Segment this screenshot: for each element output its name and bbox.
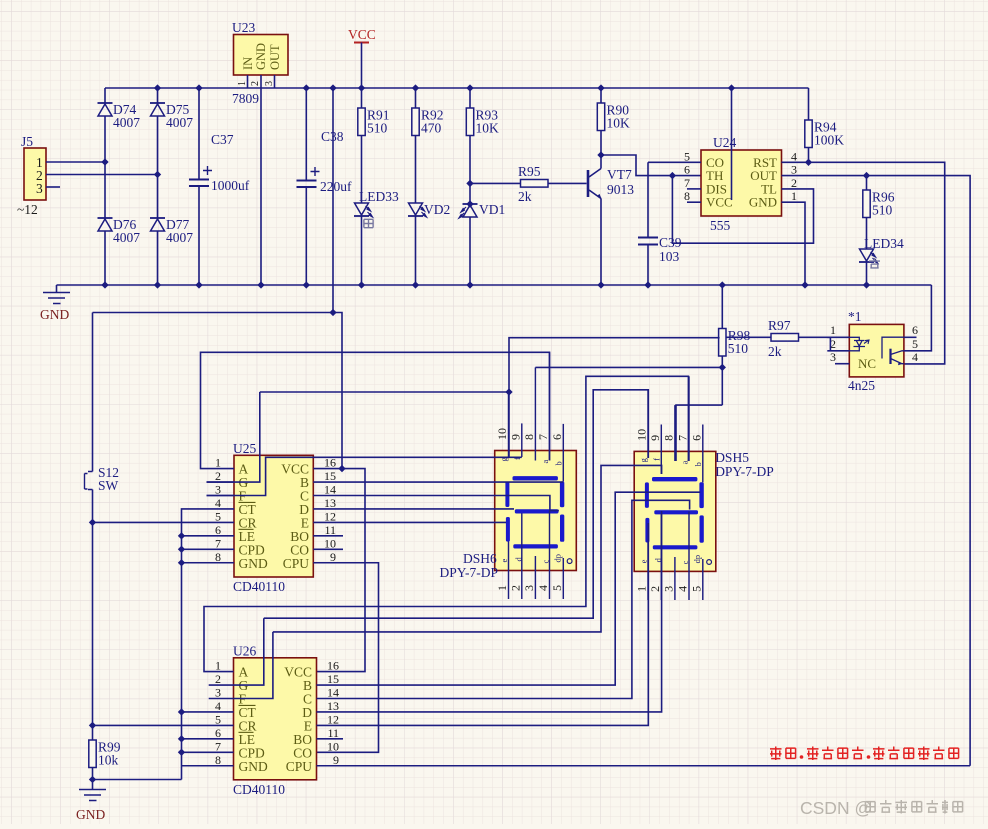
wire: [104, 116, 106, 218]
wire VCC rail to pin8 over box: [731, 88, 733, 200]
wire: [647, 390, 649, 458]
svg-text:470: 470: [421, 121, 442, 136]
wire opto pin5 to ground rail: [904, 285, 932, 351]
wire: [562, 424, 564, 482]
svg-text:8: 8: [684, 189, 690, 203]
transistor VT7: [588, 169, 602, 199]
svg-text:8: 8: [522, 434, 536, 440]
wire: [721, 285, 723, 329]
svg-text:9: 9: [330, 550, 336, 564]
svg-text:U25: U25: [233, 441, 256, 456]
wire: [317, 511, 662, 712]
design credit text (red): [770, 747, 959, 761]
wire: [726, 336, 771, 338]
wire: [361, 88, 363, 108]
wire: [509, 338, 720, 457]
ground symbol top left: [43, 285, 70, 304]
junction: [101, 281, 108, 288]
capacitor C38: [297, 167, 320, 187]
wire: [702, 559, 704, 600]
svg-text:4: 4: [215, 699, 221, 713]
svg-text:R97: R97: [768, 318, 791, 333]
wire: [521, 513, 523, 599]
wire: [182, 765, 234, 767]
wire: [182, 535, 235, 537]
svg-text:C39: C39: [659, 235, 682, 250]
svg-text:7: 7: [684, 176, 690, 190]
svg-text:100K: 100K: [814, 133, 844, 148]
junction: [412, 84, 419, 91]
wire: [562, 558, 564, 599]
svg-text:GND: GND: [749, 195, 777, 210]
junction: [412, 281, 419, 288]
wire: [361, 216, 363, 285]
wire: [182, 509, 235, 780]
svg-text:CPU: CPU: [286, 759, 313, 774]
svg-text:4: 4: [791, 149, 797, 163]
junction: [89, 776, 96, 783]
junction: [358, 84, 365, 91]
svg-text:10K: 10K: [607, 116, 631, 131]
junction: [466, 281, 473, 288]
svg-text:2: 2: [215, 672, 221, 686]
svg-text:6: 6: [689, 435, 703, 441]
diode D75: [150, 103, 165, 116]
junction: [805, 159, 812, 166]
junction: [338, 465, 345, 472]
optocoupler *1 4n25: [849, 324, 904, 377]
junction: [154, 171, 161, 178]
wire: [549, 511, 551, 599]
wire: [157, 88, 159, 103]
wire: [93, 779, 182, 781]
wire: [209, 632, 273, 699]
wire: [687, 188, 701, 190]
svg-text:OUT: OUT: [268, 44, 282, 70]
svg-text:11: 11: [327, 726, 339, 740]
wire RST to opto pin4: [782, 162, 945, 364]
svg-text:5: 5: [684, 149, 690, 163]
svg-text:dp: dp: [692, 555, 702, 564]
svg-text:CPU: CPU: [283, 556, 310, 571]
wire: [313, 481, 563, 483]
junction: [303, 84, 310, 91]
svg-text:13: 13: [324, 496, 336, 510]
wire: [702, 425, 704, 483]
svg-text:GND: GND: [76, 807, 105, 822]
wire: [688, 512, 690, 601]
wire: [182, 738, 234, 740]
wire: [534, 367, 536, 460]
svg-text:3: 3: [36, 181, 43, 196]
svg-text:8: 8: [215, 550, 221, 564]
connector J5: [24, 148, 46, 200]
svg-text:CD40110: CD40110: [233, 782, 285, 797]
wire: [182, 562, 235, 564]
svg-text:e: e: [499, 559, 509, 563]
junction: [597, 84, 604, 91]
svg-text:4007: 4007: [113, 230, 140, 245]
wire: [198, 186, 200, 285]
wire: [317, 738, 344, 740]
svg-text:9013: 9013: [607, 182, 634, 197]
svg-text:*1: *1: [848, 309, 862, 324]
resistor R91: [358, 108, 390, 136]
wire: [274, 75, 276, 88]
wire: [201, 352, 550, 468]
wire: [660, 514, 662, 600]
wire: [648, 161, 701, 163]
svg-text:4007: 4007: [166, 230, 193, 245]
junction: [466, 84, 473, 91]
svg-text:9: 9: [333, 753, 339, 767]
svg-text:GND: GND: [40, 307, 69, 322]
resistor R94: [805, 120, 844, 148]
svg-text:510: 510: [728, 341, 749, 356]
wire collector to TH: [601, 155, 701, 176]
svg-text:IN: IN: [241, 57, 255, 70]
svg-text:2: 2: [648, 586, 662, 592]
svg-text:3: 3: [215, 686, 221, 700]
resistor R93: [466, 108, 499, 136]
svg-text:3: 3: [791, 163, 797, 177]
timer U24 555: [701, 150, 782, 216]
svg-text:CD40110: CD40110: [233, 579, 285, 594]
wire: [93, 724, 234, 726]
svg-text:1: 1: [830, 323, 836, 337]
svg-text:VCC: VCC: [348, 27, 376, 42]
wire: [317, 523, 649, 725]
svg-text:J5: J5: [21, 134, 33, 149]
wire: [535, 366, 722, 368]
overline CT U25: [239, 501, 256, 503]
wire: [688, 376, 690, 461]
label yellow: [869, 258, 880, 268]
wire: [305, 187, 307, 285]
svg-text:8: 8: [215, 753, 221, 767]
wire: [808, 148, 810, 163]
display DSH6 DPY-7-DP: [495, 451, 577, 571]
switch S12: [85, 313, 93, 523]
wire: [808, 88, 810, 120]
svg-text:9: 9: [508, 434, 522, 440]
wire: [827, 336, 849, 338]
wire U25.16 to U26.16: [313, 469, 365, 672]
svg-text:3: 3: [830, 350, 836, 364]
resistor R90: [597, 103, 630, 131]
svg-text:6: 6: [215, 726, 221, 740]
svg-text:1000uf: 1000uf: [211, 178, 250, 193]
power port VCC: [354, 43, 369, 89]
wire: [534, 556, 536, 599]
wire: [273, 465, 662, 632]
display DSH5 DPY-7-DP: [634, 451, 716, 571]
wire: [317, 492, 701, 685]
junction: [89, 722, 96, 729]
segments DSH5: [645, 477, 712, 564]
junction: [801, 281, 808, 288]
svg-text:VCC: VCC: [706, 195, 733, 210]
junction: [178, 546, 185, 553]
svg-text:SW: SW: [98, 478, 119, 493]
svg-text:C37: C37: [211, 132, 234, 147]
svg-text:10: 10: [327, 739, 339, 753]
wire: [469, 136, 471, 205]
wire: [313, 563, 378, 753]
wire: [676, 405, 722, 461]
svg-text:2: 2: [215, 469, 221, 483]
wire: [207, 481, 235, 483]
svg-text:g: g: [638, 457, 648, 462]
svg-text:7: 7: [676, 435, 690, 441]
wire OUT down right side: [782, 176, 971, 766]
svg-text:6: 6: [550, 434, 564, 440]
junction: [178, 532, 185, 539]
wire: [317, 500, 690, 698]
wire: [104, 88, 106, 103]
svg-text:10: 10: [495, 428, 509, 440]
svg-text:1: 1: [635, 586, 649, 592]
wire: [260, 391, 509, 393]
wire: [508, 392, 510, 457]
junction: [329, 309, 336, 316]
junction: [505, 388, 512, 395]
wire VCC top rail: [105, 87, 809, 89]
wire: [247, 75, 249, 88]
svg-text:4007: 4007: [166, 115, 193, 130]
svg-text:14: 14: [324, 483, 336, 497]
junction: [195, 281, 202, 288]
junction: [329, 84, 336, 91]
svg-text:VT7: VT7: [607, 167, 632, 182]
svg-text:2: 2: [250, 81, 261, 86]
svg-text:dp: dp: [552, 554, 562, 563]
junction: [154, 84, 161, 91]
svg-text:9: 9: [648, 435, 662, 441]
segment letters DSH5: [638, 457, 703, 564]
wire across to U25 pin16: [93, 313, 343, 469]
svg-text:5: 5: [215, 712, 221, 726]
junction: [154, 281, 161, 288]
capacitor C39: [638, 238, 658, 245]
segment letters DSH6: [499, 457, 564, 564]
svg-text:5: 5: [215, 509, 221, 523]
svg-text:7: 7: [215, 739, 221, 753]
wire: [207, 457, 522, 495]
wire: [361, 136, 363, 204]
svg-text:DPY-7-DP: DPY-7-DP: [715, 464, 774, 479]
LED LED33: [354, 203, 373, 217]
svg-text:6: 6: [912, 323, 918, 337]
resistor R95: [521, 180, 549, 188]
wire: [198, 88, 200, 180]
wire switch to R99: [92, 522, 94, 740]
wire: [469, 217, 471, 285]
junction: [719, 281, 726, 288]
resistor R96: [863, 190, 895, 218]
junction: [178, 708, 185, 715]
junction: [101, 158, 108, 165]
junction: [597, 151, 604, 158]
wire: [600, 131, 602, 156]
wire TL to TH: [672, 176, 813, 244]
wire: [674, 405, 676, 461]
wire: [317, 765, 971, 767]
ground symbol bottom: [79, 789, 106, 801]
junction: [863, 281, 870, 288]
wire: [209, 618, 264, 685]
wire: [313, 508, 514, 510]
segments DSH6: [505, 476, 572, 563]
svg-text:DSH5: DSH5: [715, 450, 749, 465]
wire: [182, 711, 234, 713]
svg-text:15: 15: [324, 469, 336, 483]
wire: [182, 548, 235, 550]
wire: [157, 116, 159, 218]
svg-text:15: 15: [327, 672, 339, 686]
junction: [466, 200, 473, 207]
svg-text:~12: ~12: [17, 202, 38, 217]
wire: [660, 425, 662, 475]
svg-text:DPY-7-DP: DPY-7-DP: [440, 565, 499, 580]
junction: [178, 749, 185, 756]
svg-text:12: 12: [324, 509, 336, 523]
svg-text:1: 1: [215, 659, 221, 673]
svg-text:3: 3: [215, 483, 221, 497]
wire CO to C39: [647, 162, 649, 237]
wire: [415, 136, 417, 204]
wire: [549, 352, 551, 460]
svg-text:GND: GND: [239, 556, 268, 571]
overline LE U26: [239, 731, 254, 733]
wire: [204, 376, 688, 671]
svg-text:4: 4: [536, 585, 550, 591]
wire: [313, 496, 559, 511]
opto internal transistor: [882, 337, 904, 365]
opto internal LED: [849, 337, 869, 351]
svg-text:5: 5: [689, 586, 703, 592]
wire: [827, 350, 849, 352]
junction: [597, 281, 604, 288]
wire: [866, 176, 868, 190]
svg-text:7809: 7809: [232, 91, 259, 106]
diode D74: [98, 103, 113, 116]
svg-text:DSH6: DSH6: [463, 551, 497, 566]
svg-text:4n25: 4n25: [848, 378, 875, 393]
wire: [104, 231, 106, 285]
counter U25 CD40110: [234, 455, 313, 577]
wire: [313, 548, 343, 550]
svg-text:1: 1: [495, 585, 509, 591]
svg-text:2: 2: [791, 176, 797, 190]
wire: [469, 88, 471, 108]
wire: [508, 542, 510, 600]
wire: [264, 390, 649, 618]
wire: [647, 245, 649, 286]
overline LE U25: [239, 528, 254, 530]
svg-text:U24: U24: [713, 135, 736, 150]
svg-text:14: 14: [327, 686, 339, 700]
wire R97 to opto pins 1-2: [799, 337, 831, 351]
svg-text:GND: GND: [239, 759, 268, 774]
wire: [305, 88, 307, 181]
wire VCC rail down to switch net: [332, 88, 334, 313]
junction: [178, 559, 185, 566]
wire J5.3 stub: [46, 186, 60, 188]
LED LED34: [859, 249, 878, 263]
wire: [687, 201, 701, 203]
wire: [548, 182, 587, 184]
capacitor C37: [189, 166, 212, 186]
diode D76: [98, 218, 113, 231]
svg-text:NC: NC: [858, 356, 876, 371]
wire: [93, 521, 235, 523]
junction: [466, 180, 473, 187]
svg-text:6: 6: [215, 523, 221, 537]
svg-text:VD2: VD2: [424, 202, 450, 217]
svg-text:3: 3: [661, 586, 675, 592]
wire U23 GND pin to ground rail: [260, 75, 262, 285]
resistor R92: [412, 108, 444, 136]
svg-text:13: 13: [327, 699, 339, 713]
wire: [674, 557, 676, 600]
counter U26 CD40110: [234, 658, 317, 780]
svg-text:GND: GND: [254, 43, 268, 70]
svg-text:VD1: VD1: [479, 202, 505, 217]
wire: [415, 216, 417, 285]
svg-text:6: 6: [684, 163, 690, 177]
resistor R98: [719, 328, 751, 356]
resistor R99: [89, 740, 121, 768]
overline CT U26: [239, 704, 256, 706]
svg-text:11: 11: [324, 523, 336, 537]
wire J5.1 to bridge: [46, 161, 105, 163]
svg-text:10: 10: [635, 429, 649, 441]
resistor R97: [771, 334, 799, 342]
svg-text:U26: U26: [233, 644, 256, 659]
svg-text:4: 4: [215, 496, 221, 510]
wire: [904, 336, 917, 338]
wire: [313, 535, 343, 537]
svg-text:8: 8: [661, 435, 675, 441]
label green: [364, 219, 373, 227]
wire: [313, 521, 506, 523]
junction: [644, 281, 651, 288]
wire ground rail: [57, 284, 932, 286]
diode VD2: [408, 203, 427, 217]
wire: [207, 392, 260, 482]
svg-text:3: 3: [522, 585, 536, 591]
svg-text:10K: 10K: [476, 121, 500, 136]
regulator U23: [234, 35, 289, 76]
svg-text:2k: 2k: [518, 189, 532, 204]
diode VD1: [459, 204, 478, 218]
svg-text:CSDN @: CSDN @: [800, 798, 872, 818]
svg-text:b: b: [693, 462, 703, 466]
svg-text:4007: 4007: [113, 115, 140, 130]
svg-text:7: 7: [536, 434, 550, 440]
junction: [728, 84, 735, 91]
svg-text:12: 12: [327, 712, 339, 726]
svg-text:10: 10: [324, 536, 336, 550]
svg-text:5: 5: [550, 585, 564, 591]
wire: [721, 356, 723, 405]
svg-text:U23: U23: [232, 20, 255, 35]
wire: [835, 363, 849, 365]
svg-text:LED34: LED34: [864, 236, 904, 251]
wire: [470, 182, 521, 184]
junction: [669, 172, 676, 179]
